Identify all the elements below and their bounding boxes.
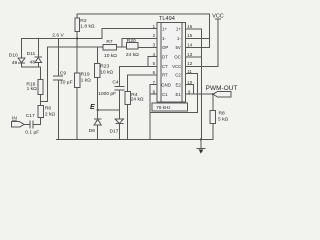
wire pin10 jog to pin9 (185, 85, 193, 95)
wire pin12 stub to VCC (185, 65, 218, 67)
capacitor C9 (58, 38, 60, 139)
svg-text:12: 12 (187, 61, 192, 66)
svg-text:2 kΩ: 2 kΩ (45, 111, 56, 117)
svg-text:GND: GND (161, 83, 171, 88)
svg-text:TL494: TL494 (159, 16, 175, 22)
svg-text:10 µF: 10 µF (60, 79, 73, 85)
resistor R2 (76, 14, 78, 38)
wire top 5V ref rail (77, 13, 209, 15)
svg-text:1-: 1- (177, 36, 181, 41)
wire pin16 stub to gnd trunk (185, 29, 201, 140)
svg-text:14: 14 (187, 43, 192, 48)
svg-text:C1: C1 (162, 92, 168, 97)
resistor R6 (40, 102, 42, 125)
terminal PWM-OUT tag (213, 92, 231, 97)
svg-text:11: 11 (187, 69, 192, 74)
wire pin14 stub (185, 46, 209, 48)
svg-text:D8: D8 (89, 128, 96, 134)
svg-text:PWM-OUT: PWM-OUT (206, 85, 238, 92)
svg-text:E1: E1 (175, 92, 181, 97)
svg-text:D11: D11 (27, 51, 36, 57)
svg-text:5V: 5V (175, 45, 180, 50)
svg-text:D17: D17 (110, 129, 119, 135)
svg-text:VCC: VCC (172, 64, 181, 69)
terminal VCC (216, 19, 221, 67)
svg-text:C4: C4 (112, 80, 119, 86)
svg-text:C2: C2 (175, 73, 181, 78)
op-amp U1 TL494 box (157, 23, 185, 103)
svg-text:13: 13 (187, 52, 192, 57)
svg-text:OC: OC (174, 55, 181, 60)
wire under-box ground link (150, 111, 197, 113)
wire bottom ground rail (57, 138, 213, 140)
wire R20 to pin3 (138, 46, 157, 48)
svg-text:1+: 1+ (162, 26, 167, 31)
svg-text:R20: R20 (127, 38, 136, 44)
svg-text:10 kΩ: 10 kΩ (100, 69, 113, 75)
svg-text:24 kΩ: 24 kΩ (126, 52, 139, 58)
svg-text:C9: C9 (60, 70, 67, 76)
svg-text:D10: D10 (9, 52, 18, 58)
diode D8 (97, 110, 99, 119)
diode D11 (37, 38, 39, 57)
svg-text:24 kΩ: 24 kΩ (131, 96, 144, 102)
resistor R16 (40, 67, 42, 101)
svg-text:9: 9 (188, 89, 191, 94)
svg-text:5: 5 (153, 61, 156, 66)
wire R7 to R20 with pin2 tap (117, 46, 128, 48)
capacitor C4 (118, 67, 120, 110)
wire ref-rail drop to pin14 (208, 14, 210, 47)
resistor R23 (97, 47, 99, 110)
svg-text:1 kΩ: 1 kΩ (27, 86, 38, 92)
svg-text:IN: IN (12, 115, 17, 121)
svg-text:3: 3 (153, 43, 156, 48)
svg-text:R23: R23 (100, 63, 109, 69)
svg-text:15: 15 (187, 33, 192, 38)
svg-text:VCC: VCC (212, 13, 223, 19)
resistor R8 (212, 93, 214, 95)
svg-text:1: 1 (153, 24, 156, 29)
svg-text:0.1 µF: 0.1 µF (25, 129, 39, 135)
oscillator label box 78 kHz (152, 103, 188, 111)
wire pin9 output line (185, 93, 213, 95)
svg-text:R19: R19 (81, 71, 90, 77)
svg-text:E: E (90, 104, 95, 111)
diode D17 (118, 110, 120, 119)
svg-text:1-: 1- (162, 36, 166, 41)
svg-text:R6: R6 (45, 106, 52, 112)
svg-text:2.6 V: 2.6 V (52, 33, 64, 39)
svg-text:1 kΩ: 1 kΩ (81, 77, 92, 83)
svg-text:R8: R8 (219, 110, 226, 116)
svg-text:16: 16 (187, 24, 192, 29)
wire pins 7/8 ground jog (150, 85, 157, 140)
wire clamp line (22, 66, 41, 68)
svg-text:2: 2 (153, 33, 156, 38)
svg-text:C17: C17 (26, 113, 35, 119)
svg-text:E2: E2 (175, 83, 181, 88)
svg-text:10: 10 (187, 80, 192, 85)
svg-text:6: 6 (153, 70, 156, 75)
wire pin11 stub down (185, 74, 197, 113)
wire 2.6V rail (22, 37, 102, 39)
wire pins 4/5 to C4 (119, 57, 157, 67)
svg-text:DT: DT (162, 55, 168, 60)
wire error-amp node line (48, 46, 104, 48)
svg-text:R2: R2 (80, 18, 87, 24)
svg-text:RT: RT (162, 73, 168, 78)
svg-text:1+: 1+ (176, 26, 181, 31)
resistor R4 (128, 75, 157, 140)
resistor R20 (126, 42, 138, 49)
svg-text:7: 7 (153, 80, 156, 85)
svg-text:5 kΩ: 5 kΩ (218, 116, 229, 122)
svg-text:1000 pF: 1000 pF (98, 91, 116, 97)
node junction R2/R19 (76, 37, 78, 39)
node E junction (97, 109, 99, 111)
svg-text:1.8 kΩ: 1.8 kΩ (80, 23, 95, 29)
svg-text:48: 48 (12, 60, 18, 66)
svg-text:R7: R7 (106, 39, 113, 45)
svg-text:78 kHz: 78 kHz (156, 105, 171, 110)
ground (197, 139, 205, 148)
wire pin15 stub (185, 37, 209, 39)
svg-text:10 kΩ: 10 kΩ (104, 53, 117, 59)
diode D10 (21, 38, 23, 58)
svg-text:CT: CT (162, 64, 168, 69)
wire pin13 stub (185, 56, 201, 58)
resistor R19 (76, 38, 78, 139)
resistor R7 (103, 45, 116, 50)
input terminal IN (11, 122, 24, 128)
wire rail to pin1 (102, 29, 157, 39)
svg-text:48: 48 (30, 60, 36, 66)
capacitor C17 (24, 118, 41, 125)
wire jog R16/R6 junction to error line (41, 47, 48, 101)
node ground junction (200, 138, 202, 140)
wire E line (98, 109, 120, 111)
svg-text:OP: OP (162, 45, 168, 50)
